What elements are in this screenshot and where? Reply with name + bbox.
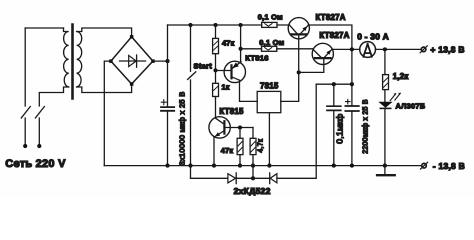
svg-text:47к: 47к: [222, 38, 235, 47]
wire: node B to KT816 base: [216, 70, 232, 72]
wire: start line lower: [190, 80, 192, 178]
terminal -13,8: [422, 163, 427, 168]
junction: [251, 164, 255, 168]
junction: [383, 164, 387, 168]
svg-text:3х10000 мкф х 25 В: 3х10000 мкф х 25 В: [177, 91, 186, 165]
wire: bus to caps: [316, 83, 352, 85]
transformer T1 core: [71, 25, 74, 99]
terminal +13,8: [421, 47, 426, 52]
junction: [238, 164, 242, 168]
wire: KT816 emitter up: [240, 25, 242, 63]
junction: [383, 47, 387, 51]
svg-text:2хКД522: 2хКД522: [234, 186, 271, 196]
transistor KT815: [209, 117, 230, 138]
junction: [213, 23, 217, 27]
diode loop wire right and up to bus: [277, 84, 316, 178]
wire: 7815 output: [281, 72, 299, 101]
wire: secondary top to bridge: [77, 28, 132, 37]
capacitor C3 2200мкф: [351, 49, 353, 165]
plug pin 1: [23, 144, 27, 148]
svg-text:47к: 47к: [221, 146, 234, 155]
resistor 47k top: [215, 25, 217, 70]
plug pin 2: [37, 144, 41, 148]
chassis ground: [384, 166, 386, 174]
junction: [239, 47, 243, 51]
svg-text:0,1 Ом: 0,1 Ом: [258, 12, 283, 21]
svg-text:7815: 7815: [260, 81, 279, 90]
resistor 4,7k: [252, 128, 254, 179]
diode VD2 КД522: [269, 173, 271, 184]
wire: ammeter to terminal: [376, 48, 422, 50]
svg-text:Start: Start: [194, 62, 213, 71]
svg-text:0 - 30 А: 0 - 30 А: [357, 32, 389, 42]
svg-text:0,1мкф: 0,1мкф: [335, 114, 345, 144]
wire: KT816 collector to 7815: [240, 80, 258, 101]
junction: [332, 164, 336, 168]
svg-text:0,1 Ом: 0,1 Ом: [259, 38, 284, 47]
wire: bases bus: [299, 64, 324, 72]
wire: row2: [241, 48, 313, 50]
svg-text:КТ815: КТ815: [219, 107, 244, 116]
junction: [350, 82, 354, 86]
junction: [212, 164, 216, 168]
IC 7815 box: [257, 91, 281, 112]
svg-text:2200мкф х 25 В: 2200мкф х 25 В: [362, 99, 369, 154]
wire: base1 down: [298, 34, 300, 72]
svg-text:4,7к: 4,7к: [257, 138, 264, 152]
junction: [350, 164, 354, 168]
wire: emitter1 to output: [308, 25, 352, 49]
svg-text:КТ827А: КТ827А: [316, 13, 346, 22]
junction: [165, 164, 169, 168]
wire: KT815 base: [224, 127, 253, 129]
junction: [332, 82, 336, 86]
bridge corner junctions: [109, 35, 155, 86]
junction node B: [213, 68, 217, 72]
svg-text:+ 13,8 В: + 13,8 В: [430, 44, 464, 54]
junction: [350, 47, 354, 51]
wire: 7815 gnd: [268, 113, 270, 166]
resistor 0,1 Ом #1: [262, 22, 277, 27]
wire: bridge plus to node: [153, 60, 168, 62]
wire: raw DC vertical: [167, 25, 169, 166]
C1 plus sign: [161, 100, 166, 105]
junction: [188, 23, 192, 27]
junction: [165, 59, 169, 63]
diode loop wire left: [191, 177, 228, 179]
transistor KT827A #1: [288, 18, 309, 39]
wire: mains top: [25, 27, 63, 29]
ammeter PA1: [360, 42, 376, 58]
junction: [251, 176, 255, 180]
junction: [238, 125, 242, 129]
resistor 1,2k: [384, 49, 386, 101]
svg-text:КТ827А: КТ827А: [319, 31, 349, 40]
junction: [239, 23, 243, 27]
svg-text:1,2к: 1,2к: [393, 72, 409, 81]
wire: KT815 emitter down: [213, 137, 215, 166]
LED АЛ307Б: [378, 102, 392, 108]
capacitor C1 3x10000 plates: [161, 107, 174, 111]
wire: primary bottom: [39, 87, 68, 106]
wire: top rail: [168, 24, 290, 26]
junction: [188, 164, 192, 168]
C3 plus sign: [346, 99, 350, 103]
transistor KT827A #2: [312, 43, 333, 64]
switch SA1 pole 2: [35, 107, 44, 145]
svg-text:1к: 1к: [222, 82, 230, 91]
wire: bottom rail: [104, 165, 421, 167]
svg-text:КТ816: КТ816: [245, 53, 268, 62]
wire: bridge minus to bottom rail: [104, 61, 111, 166]
wire: LED down to rail: [384, 109, 386, 166]
bridge internal diode: [120, 55, 146, 67]
svg-text:Сеть 220 V: Сеть 220 V: [5, 158, 66, 170]
resistor 0,1 Ом #2: [262, 46, 277, 51]
junction: [297, 70, 301, 74]
wire: secondary bottom to bridge: [77, 84, 132, 93]
diode loop wire middle: [236, 177, 270, 179]
diode VD1 КД522: [228, 174, 236, 183]
transformer T1 primary winding: [64, 28, 69, 87]
wire: emitter2 output rail: [332, 48, 360, 50]
switch SA1 pole 1: [21, 107, 30, 145]
resistor 47k bottom: [239, 128, 241, 166]
svg-text:- 13,8 В: - 13,8 В: [433, 161, 465, 171]
transformer T1 secondary winding: [77, 32, 82, 88]
switch Start: [188, 25, 196, 79]
svg-text:АЛ307Б: АЛ307Б: [396, 102, 426, 111]
resistor 1k: [215, 70, 217, 117]
transistor KT816: [224, 61, 245, 82]
junction: [267, 164, 271, 168]
bridge rectifier VD diamond: [111, 37, 153, 84]
capacitor C2 0,1мкф: [333, 84, 335, 165]
wire: mains left vertical: [24, 28, 26, 106]
